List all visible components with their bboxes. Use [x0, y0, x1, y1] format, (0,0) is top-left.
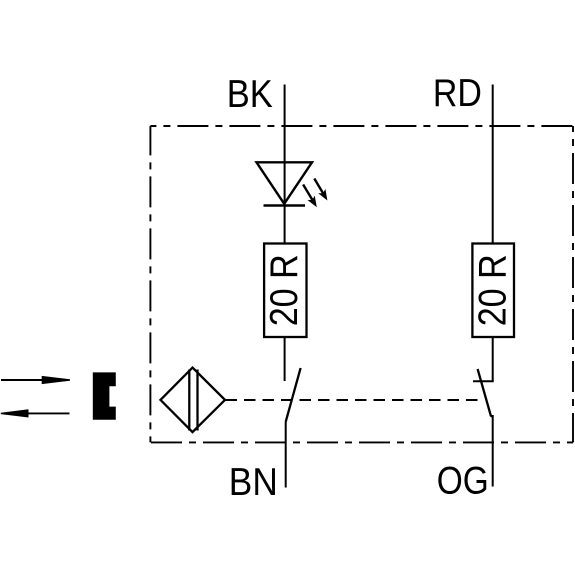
- sensor enclosure (dash-dot outline): [150, 126, 573, 442]
- LED emission arrow 1: [314, 179, 327, 201]
- LED D1: [257, 162, 313, 205]
- resistor R2: [472, 244, 514, 338]
- wire BK (top terminal down through LED to resistor R1): [284, 85, 286, 244]
- svg-text:BK: BK: [227, 73, 273, 116]
- svg-text:OG: OG: [437, 460, 489, 503]
- wire BN (switch S1 to bottom terminal): [285, 422, 287, 488]
- switch S2 stop bar (NC contact tick): [473, 380, 494, 382]
- optical sensor element U1 (diamond): [161, 368, 226, 433]
- switch S1 blade (NO contact): [286, 368, 301, 422]
- svg-text:RD: RD: [433, 72, 482, 115]
- actuation dashed line (U1 to S1 and S2): [226, 399, 485, 401]
- beam arrow (emitted, pointing right): [1, 376, 70, 384]
- wire RD (top terminal down to resistor R2): [492, 85, 494, 244]
- beam arrow (reflected, pointing left): [1, 409, 70, 417]
- svg-text:BN: BN: [229, 461, 278, 504]
- wire R1 to switch S1: [284, 337, 286, 381]
- resistor R1: [264, 244, 306, 338]
- reflector / target bracket: [93, 372, 116, 419]
- switch S2 blade (NC contact): [478, 369, 493, 417]
- wire R2 to switch S2: [492, 337, 494, 381]
- svg-text:20 R: 20 R: [472, 254, 515, 326]
- svg-text:20 R: 20 R: [263, 254, 306, 326]
- LED emission arrow 2: [303, 185, 317, 208]
- wire OG (switch S2 to bottom terminal): [492, 415, 494, 487]
